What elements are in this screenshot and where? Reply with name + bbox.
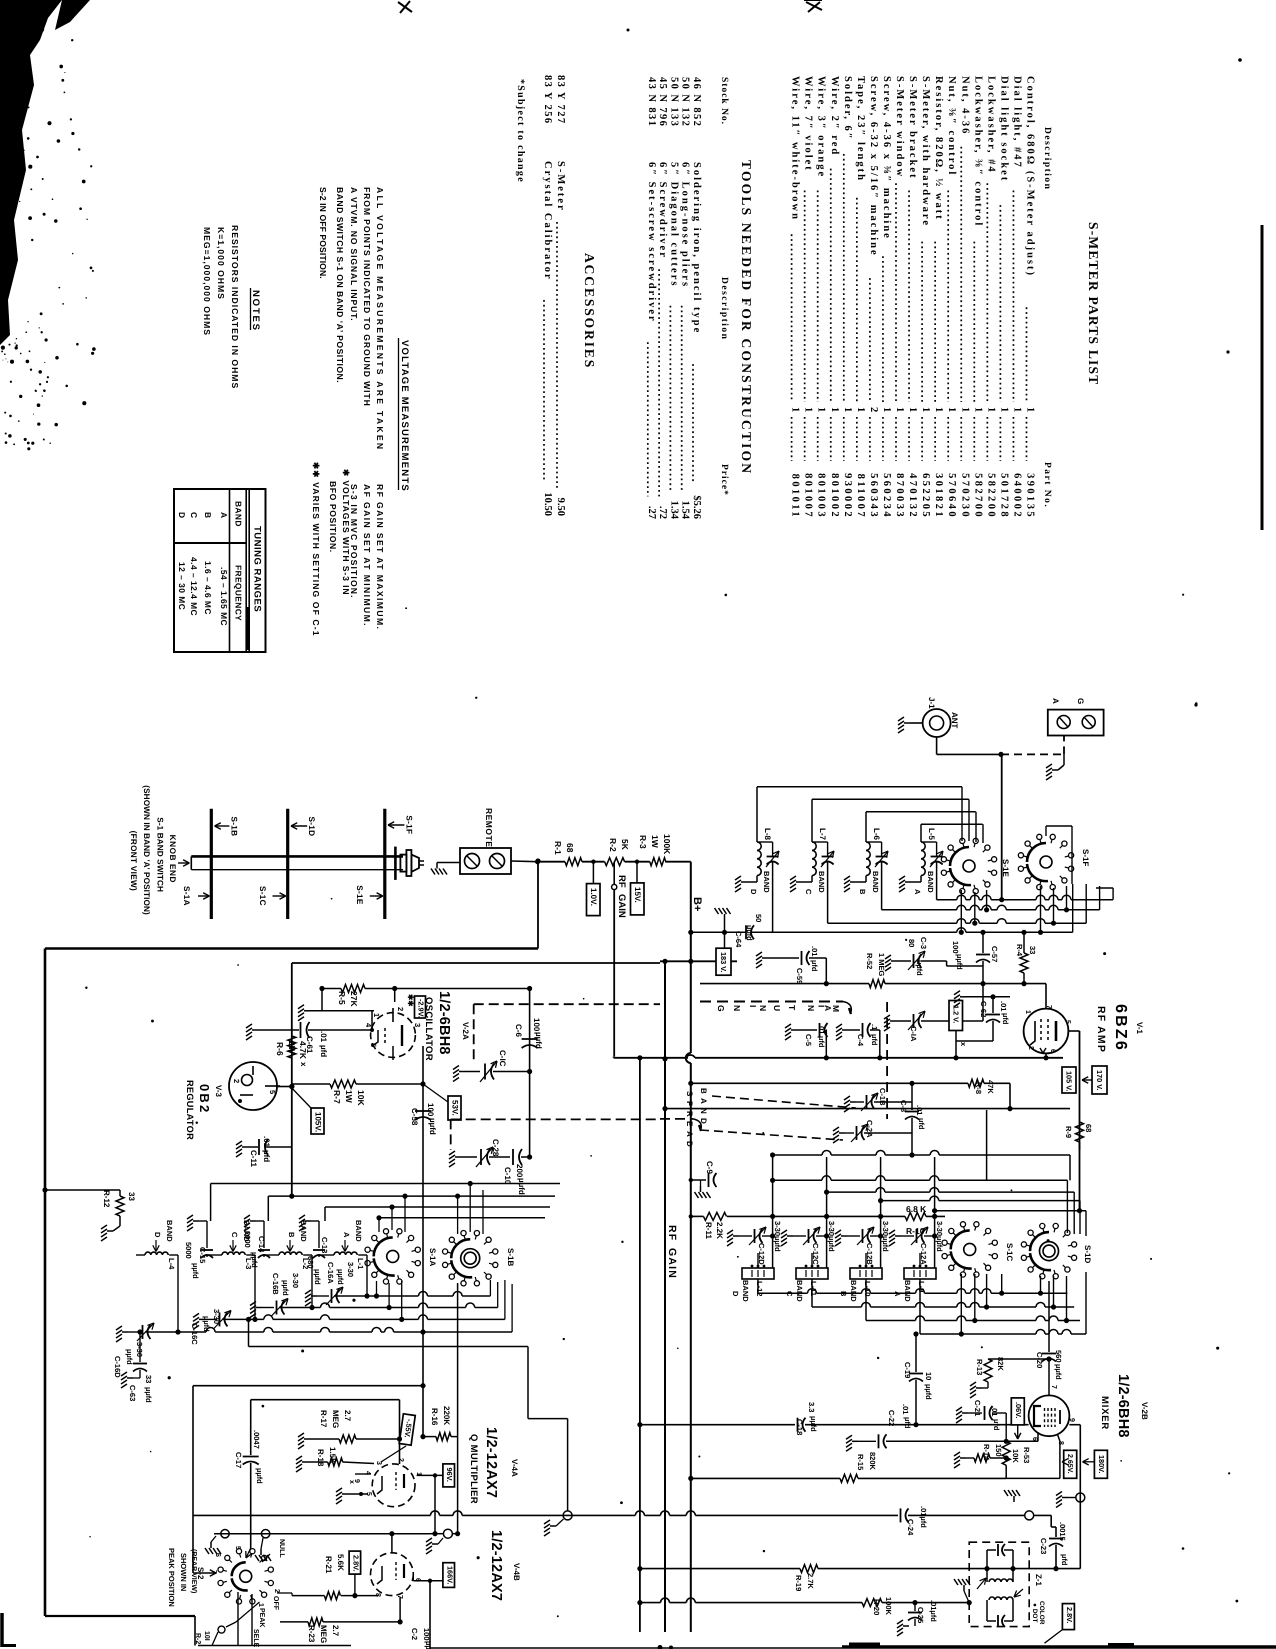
svg-text:NULL: NULL (278, 1539, 285, 1558)
svg-text:1: 1 (855, 407, 866, 412)
svg-text:4.7K: 4.7K (298, 1041, 308, 1060)
svg-text:ANT: ANT (950, 712, 959, 729)
svg-text:C-16C: C-16C (190, 1323, 199, 1345)
svg-text:200: 200 (515, 1164, 524, 1178)
svg-text:.01: .01 (990, 1406, 999, 1416)
svg-text:(FRONT VIEW): (FRONT VIEW) (129, 831, 138, 891)
svg-text:C-22: C-22 (887, 1410, 896, 1426)
svg-text:µfd: µfd (917, 1118, 926, 1130)
svg-text:5K: 5K (620, 839, 630, 851)
svg-text:✱ VOLTAGES WITH S-3 IN: ✱ VOLTAGES WITH S-3 IN (341, 469, 351, 595)
svg-text:3-30µµfd: 3-30µµfd (881, 1221, 890, 1252)
svg-text:10K: 10K (356, 1090, 366, 1106)
svg-text:MEG: MEG (331, 1410, 340, 1428)
svg-text:(REAR VIEW): (REAR VIEW) (190, 1549, 198, 1593)
svg-text:*Subject to change: *Subject to change (515, 79, 526, 183)
svg-text:.01: .01 (262, 1136, 271, 1148)
svg-text:µµfd: µµfd (924, 1384, 933, 1400)
svg-text:✱✱ VARIES WITH SETTING OF C-1: ✱✱ VARIES WITH SETTING OF C-1 (311, 462, 321, 637)
svg-text:V-2B: V-2B (1140, 1402, 1149, 1420)
svg-text:R-11: R-11 (704, 1222, 713, 1239)
svg-text:µµfd: µµfd (517, 1178, 526, 1195)
svg-text:MIXER: MIXER (1099, 1396, 1110, 1430)
svg-text:RF: RF (666, 1225, 678, 1241)
svg-text:C-4: C-4 (856, 1034, 865, 1047)
svg-text:C-13: C-13 (320, 1237, 329, 1253)
svg-text:Nut, ⅜″ control: Nut, ⅜″ control (946, 76, 957, 176)
svg-text:C-23: C-23 (1039, 1538, 1048, 1554)
svg-text:D: D (699, 1118, 708, 1124)
svg-text:3-30µµfd: 3-30µµfd (935, 1221, 944, 1252)
svg-text:Screw, 6-32 x 5/16″ machine: Screw, 6-32 x 5/16″ machine (868, 76, 879, 257)
svg-text:6: 6 (1031, 1437, 1038, 1441)
svg-text:C-59: C-59 (795, 968, 804, 984)
svg-text:Stock No.: Stock No. (719, 77, 729, 125)
svg-text:L-1: L-1 (356, 1258, 365, 1269)
svg-text:µµfd: µµfd (915, 960, 924, 976)
svg-text:1: 1 (881, 407, 892, 412)
svg-text:R-53: R-53 (1022, 1447, 1031, 1463)
svg-text:801011: 801011 (790, 474, 801, 519)
svg-text:27K: 27K (349, 991, 359, 1007)
svg-text:TUNING RANGES: TUNING RANGES (252, 526, 263, 612)
svg-text:6: 6 (1049, 1049, 1056, 1053)
svg-text:1: 1 (959, 407, 970, 412)
svg-text:170 V.: 170 V. (1095, 1070, 1104, 1090)
svg-text:µµfd: µµfd (809, 1416, 818, 1432)
svg-text:C-16A: C-16A (326, 1262, 335, 1284)
svg-text:BAND SWITCH S-1 ON BAND ‘A’ PO: BAND SWITCH S-1 ON BAND ‘A’ POSITION. (335, 187, 345, 383)
svg-text:B: B (858, 889, 867, 895)
svg-text:2W: 2W (287, 1041, 297, 1055)
svg-text:582200: 582200 (985, 473, 996, 519)
svg-text:5: 5 (268, 1090, 277, 1094)
svg-text:10K: 10K (1011, 1449, 1020, 1463)
svg-text:D: D (685, 1141, 694, 1147)
svg-text:A: A (893, 1291, 902, 1297)
svg-text:C-19: C-19 (903, 1362, 912, 1378)
svg-text:180V.: 180V. (1097, 1455, 1106, 1473)
svg-text:82K: 82K (996, 1357, 1005, 1371)
svg-text:83 Y 256: 83 Y 256 (542, 75, 553, 125)
svg-text:S-1F: S-1F (1081, 849, 1090, 866)
svg-text:VOLTAGE MEASUREMENTS: VOLTAGE MEASUREMENTS (399, 340, 410, 492)
svg-text:C-12D: C-12D (757, 1243, 766, 1265)
svg-text:33: 33 (144, 1375, 153, 1383)
svg-text:E: E (685, 1121, 694, 1127)
svg-text:10.50: 10.50 (542, 492, 553, 516)
svg-text:Dial light socket: Dial light socket (998, 76, 1009, 182)
svg-text:S-1C: S-1C (258, 886, 267, 906)
svg-text:1: 1 (933, 407, 944, 412)
svg-text:43 N 831: 43 N 831 (646, 77, 657, 127)
svg-text:µµfd: µµfd (428, 1118, 437, 1135)
svg-text:FROM POINTS INDICATED TO GROUN: FROM POINTS INDICATED TO GROUND WITH (362, 187, 372, 407)
svg-text:Z-1: Z-1 (1034, 1574, 1043, 1587)
svg-text:1.5K: 1.5K (328, 1447, 337, 1464)
svg-text:2.2K: 2.2K (715, 1222, 724, 1239)
svg-text:A: A (699, 1098, 708, 1104)
svg-text:220K: 220K (442, 1406, 451, 1425)
svg-text:.54 – 1.65 MC: .54 – 1.65 MC (219, 567, 229, 626)
svg-text:R-19: R-19 (794, 1575, 803, 1591)
svg-text:BFO POSITION.: BFO POSITION. (328, 481, 338, 553)
svg-text:Wire, 7″ violet: Wire, 7″ violet (803, 76, 814, 172)
svg-text:● DOT: ● DOT (1031, 1603, 1038, 1622)
svg-text:A: A (219, 512, 229, 518)
svg-text:S-1C: S-1C (1005, 1243, 1014, 1261)
svg-text:L-4: L-4 (167, 1258, 176, 1270)
svg-text:.27: .27 (646, 506, 657, 519)
svg-text:OFF: OFF (272, 1596, 279, 1611)
svg-text:1/2-6BH8: 1/2-6BH8 (436, 991, 452, 1055)
svg-text:J-1: J-1 (927, 697, 936, 709)
svg-text:µµfd: µµfd (191, 1263, 200, 1279)
svg-text:R-13: R-13 (975, 1359, 984, 1375)
svg-text:C-11: C-11 (249, 1150, 258, 1167)
svg-text:96V.: 96V. (445, 1468, 454, 1482)
svg-text:C-63: C-63 (128, 1385, 137, 1401)
svg-text:R-7: R-7 (332, 1090, 342, 1104)
svg-text:.01: .01 (915, 1105, 924, 1115)
svg-text:2: 2 (396, 1007, 405, 1011)
svg-text:5000: 5000 (184, 1242, 193, 1259)
svg-text:C-1B: C-1B (878, 1088, 887, 1106)
svg-text:µµfd: µµfd (125, 1349, 134, 1365)
svg-text:80: 80 (907, 939, 916, 947)
svg-text:33: 33 (1028, 946, 1037, 954)
svg-text:R-17: R-17 (319, 1410, 328, 1428)
svg-text:C: C (189, 512, 199, 518)
svg-text:R-3: R-3 (638, 835, 648, 849)
svg-text:.0015: .0015 (1058, 1522, 1067, 1541)
svg-text:COLOR: COLOR (1038, 1601, 1045, 1625)
svg-text:Q MULTIPLIER: Q MULTIPLIER (468, 1434, 479, 1504)
svg-text:TOOLS NEEDED FOR CONSTRUCTION: TOOLS NEEDED FOR CONSTRUCTION (739, 160, 754, 475)
svg-text:640002: 640002 (1011, 473, 1022, 519)
svg-text:801002: 801002 (829, 473, 840, 519)
svg-text:560: 560 (1054, 1350, 1063, 1363)
svg-text:2: 2 (1027, 1046, 1034, 1050)
svg-text:680: 680 (306, 1256, 315, 1269)
svg-text:S-Meter bracket: S-Meter bracket (907, 76, 918, 180)
svg-text:5″ Diagonal cutters: 5″ Diagonal cutters (668, 162, 679, 287)
svg-text:µfd: µfd (319, 1045, 328, 1057)
svg-text:R-1: R-1 (553, 841, 563, 855)
svg-text:83 Y 727: 83 Y 727 (555, 75, 566, 125)
svg-text:6″ Long-nose pliers: 6″ Long-nose pliers (680, 162, 691, 288)
svg-text:N: N (732, 1005, 742, 1011)
svg-text:A: A (685, 1131, 694, 1137)
svg-text:100: 100 (422, 1628, 431, 1641)
svg-text:FREQUENCY: FREQUENCY (234, 565, 244, 621)
svg-text:BAND: BAND (926, 871, 935, 893)
svg-text:50: 50 (754, 914, 763, 922)
svg-text:S-1D: S-1D (307, 817, 316, 837)
svg-text:OSCILLATOR: OSCILLATOR (423, 997, 434, 1061)
svg-text:Nut, 4-36: Nut, 4-36 (959, 76, 970, 135)
svg-text:100K: 100K (662, 834, 672, 855)
svg-text:T: T (787, 1005, 797, 1011)
svg-text:Soldering iron, pencil type: Soldering iron, pencil type (691, 162, 702, 334)
svg-text:S-1F: S-1F (404, 815, 413, 834)
svg-text:2.8V.: 2.8V. (352, 1555, 361, 1571)
svg-text:BAND: BAND (849, 1280, 858, 1302)
svg-text:S-1B: S-1B (229, 817, 238, 837)
svg-text:x: x (299, 1062, 308, 1067)
svg-text:45 N 796: 45 N 796 (657, 77, 668, 127)
svg-text:Wire, 3″ orange: Wire, 3″ orange (816, 76, 827, 178)
svg-text:1: 1 (790, 407, 801, 412)
svg-text:R-14: R-14 (982, 1444, 991, 1461)
svg-text:BAND: BAND (741, 1280, 750, 1302)
svg-text:RESISTORS INDICATED IN OHMS: RESISTORS INDICATED IN OHMS (230, 225, 240, 389)
svg-text:1: 1 (829, 407, 840, 412)
svg-text:R-2: R-2 (608, 838, 618, 852)
svg-text:2: 2 (868, 407, 879, 412)
svg-text:2: 2 (232, 1079, 241, 1083)
svg-text:.01µfd: .01µfd (929, 1600, 938, 1622)
svg-text:Price*: Price* (719, 464, 729, 496)
svg-text:.01: .01 (319, 1031, 328, 1043)
svg-text:2.7: 2.7 (343, 1410, 352, 1422)
svg-text:µµfd: µµfd (281, 1280, 290, 1296)
svg-text:1.0V.: 1.0V. (589, 888, 598, 906)
svg-text:µµfd: µµfd (534, 1032, 543, 1049)
svg-text:D: D (731, 1291, 740, 1297)
svg-text:C-16D: C-16D (113, 1356, 122, 1378)
svg-text:105V.: 105V. (314, 1112, 323, 1132)
svg-text:A: A (913, 889, 922, 895)
svg-text:D: D (177, 512, 187, 518)
svg-text:1.34: 1.34 (668, 501, 679, 520)
svg-text:C-IA: C-IA (909, 1026, 918, 1042)
svg-text:x: x (959, 1042, 968, 1047)
svg-text:2: 2 (397, 1458, 404, 1462)
svg-text:801007: 801007 (803, 473, 814, 519)
svg-text:R: R (685, 1111, 694, 1117)
svg-text:1: 1 (372, 1013, 381, 1017)
svg-text:2.7: 2.7 (331, 1625, 340, 1637)
svg-text:1.54: 1.54 (680, 501, 691, 520)
svg-text:R-20: R-20 (872, 1599, 881, 1615)
svg-text:R-21: R-21 (324, 1556, 333, 1574)
svg-text:5: 5 (369, 1043, 378, 1047)
svg-text:1: 1 (1011, 407, 1022, 412)
svg-text:x: x (348, 1480, 355, 1484)
svg-text:1/2-12AX7: 1/2-12AX7 (483, 1427, 499, 1498)
svg-text:Wire, 11″ white-brown: Wire, 11″ white-brown (790, 76, 801, 221)
svg-text:1: 1 (1025, 407, 1036, 412)
svg-text:A: A (1051, 698, 1060, 704)
svg-text:C-24: C-24 (906, 1519, 915, 1536)
svg-text:R-8: R-8 (974, 1082, 983, 1094)
svg-text:B: B (203, 512, 213, 518)
svg-text:3: 3 (413, 1023, 422, 1027)
svg-text:820K: 820K (868, 1452, 877, 1471)
svg-text:B: B (839, 1291, 848, 1297)
svg-text:R-16: R-16 (430, 1408, 439, 1426)
svg-text:S-Meter window: S-Meter window (894, 76, 905, 178)
svg-text:µµfd: µµfd (955, 954, 964, 970)
svg-text:.1: .1 (870, 1024, 879, 1030)
svg-text:R-18: R-18 (316, 1449, 325, 1467)
svg-text:µfd: µfd (262, 1150, 271, 1162)
svg-text:PEAK: PEAK (258, 1608, 265, 1627)
svg-text:C-62: C-62 (979, 1001, 988, 1017)
svg-text:R-23: R-23 (307, 1625, 316, 1643)
svg-text:1.2 V.: 1.2 V. (952, 1005, 961, 1023)
svg-text:µµfd: µµfd (250, 1252, 259, 1268)
svg-text:S-1A: S-1A (428, 1248, 437, 1266)
svg-text:1: 1 (1024, 1010, 1031, 1014)
svg-text:L-8: L-8 (763, 828, 772, 841)
svg-text:BAND: BAND (817, 871, 826, 893)
svg-text:S-METER PARTS LIST: S-METER PARTS LIST (1086, 222, 1101, 385)
svg-text:B+: B+ (691, 897, 703, 911)
svg-text:1: 1 (946, 407, 957, 412)
svg-text:S-1D: S-1D (1083, 1245, 1092, 1263)
svg-text:µµfd: µµfd (255, 1468, 264, 1484)
svg-text:15V.: 15V. (633, 887, 642, 903)
svg-text:3.3: 3.3 (807, 1402, 816, 1412)
svg-text:N: N (758, 1005, 768, 1011)
svg-text:C-8: C-8 (899, 1100, 908, 1112)
svg-text:BAND: BAND (903, 1280, 912, 1302)
svg-text:MEG: MEG (319, 1625, 328, 1643)
svg-text:BAND: BAND (299, 1220, 308, 1242)
svg-text:100: 100 (532, 1018, 541, 1032)
svg-text:µµfd: µµfd (745, 925, 754, 941)
svg-text:1: 1 (803, 407, 814, 412)
svg-text:S-Meter: S-Meter (555, 161, 566, 212)
svg-text:Description: Description (719, 277, 729, 340)
svg-text:652205: 652205 (920, 473, 931, 519)
svg-text:501728: 501728 (998, 473, 1009, 519)
svg-text:R-2: R-2 (194, 1633, 201, 1644)
svg-text:REMOTE: REMOTE (484, 808, 494, 847)
svg-text:3-30: 3-30 (212, 1309, 221, 1324)
svg-text:C-12C: C-12C (811, 1243, 820, 1265)
svg-text:S: S (685, 1091, 694, 1097)
svg-text:301821: 301821 (933, 473, 944, 519)
svg-text:BAND: BAND (762, 871, 771, 893)
svg-text:C-IC: C-IC (498, 1050, 507, 1067)
svg-text:µfd: µfd (870, 1034, 879, 1046)
svg-text:ALL VOLTAGE MEASUREMENTS ARE T: ALL VOLTAGE MEASUREMENTS ARE TAKEN (375, 187, 385, 451)
svg-text:C-12B: C-12B (865, 1243, 874, 1265)
svg-text:µµfd: µµfd (1054, 1364, 1063, 1380)
svg-text:µfd: µfd (1001, 1013, 1010, 1025)
svg-text:560234: 560234 (881, 473, 892, 519)
svg-text:V-4A: V-4A (510, 1459, 519, 1477)
svg-text:C-6: C-6 (514, 1024, 523, 1037)
svg-text:Lockwasher, #4: Lockwasher, #4 (985, 76, 996, 174)
svg-text:2.8V.: 2.8V. (1065, 1607, 1074, 1623)
svg-text:RF AMP: RF AMP (1095, 1006, 1107, 1053)
svg-text:150: 150 (994, 1444, 1003, 1457)
svg-text:$5.26: $5.26 (691, 495, 702, 519)
svg-text:470132: 470132 (907, 473, 918, 519)
svg-text:1/2-12AX7: 1/2-12AX7 (488, 1530, 504, 1601)
svg-text:BAND: BAND (354, 1220, 363, 1242)
svg-text:S-1A: S-1A (182, 886, 191, 906)
svg-text:Dial light, #47: Dial light, #47 (1011, 76, 1022, 169)
svg-text:6: 6 (214, 1553, 221, 1557)
svg-text:MEG=1,000,000 OHMS: MEG=1,000,000 OHMS (202, 227, 212, 336)
svg-text:V-4B: V-4B (512, 1563, 521, 1581)
svg-text:S-Meter, with hardware: S-Meter, with hardware (920, 76, 931, 227)
svg-text:Wire, 2″ red: Wire, 2″ red (829, 76, 840, 156)
svg-text:✱✱: ✱✱ (406, 994, 415, 1007)
svg-text:5.6K: 5.6K (336, 1554, 345, 1571)
svg-text:G: G (1076, 698, 1085, 704)
svg-text:C-14: C-14 (257, 1236, 266, 1253)
svg-text:C-16B: C-16B (271, 1273, 280, 1295)
svg-text:A VTVM. NO SIGNAL INPUT.: A VTVM. NO SIGNAL INPUT. (349, 187, 359, 322)
svg-text:.01: .01 (810, 946, 819, 956)
svg-text:S-1E: S-1E (355, 885, 364, 905)
svg-text:KNOB END: KNOB END (168, 835, 177, 883)
svg-text:C-25: C-25 (916, 1607, 925, 1623)
svg-text:SHOWN IN: SHOWN IN (179, 1553, 188, 1591)
svg-text:6″ Set-screw screwdriver: 6″ Set-screw screwdriver (646, 162, 657, 323)
svg-text:L-6: L-6 (872, 828, 881, 841)
svg-text:53V.: 53V. (451, 1100, 460, 1116)
svg-text:1: 1 (985, 407, 996, 412)
svg-text:.72: .72 (657, 506, 668, 519)
svg-text:N: N (806, 1005, 816, 1011)
svg-text:3-30µµfd: 3-30µµfd (827, 1221, 836, 1252)
svg-text:C: C (785, 1291, 794, 1297)
svg-text:100: 100 (426, 1103, 435, 1117)
svg-text:R-9: R-9 (1064, 1126, 1073, 1138)
svg-text:9: 9 (1068, 1418, 1075, 1422)
svg-text:GAIN: GAIN (616, 894, 627, 918)
svg-text:.01: .01 (817, 1024, 826, 1034)
svg-text:C-17: C-17 (234, 1452, 243, 1468)
svg-text:1: 1 (998, 407, 1009, 412)
svg-text:183 V.: 183 V. (719, 952, 728, 972)
svg-text:Tape, 23″ length: Tape, 23″ length (855, 76, 866, 182)
svg-text:C-21: C-21 (973, 1400, 982, 1416)
svg-text:R-6: R-6 (275, 1042, 285, 1056)
svg-text:100K: 100K (884, 1597, 893, 1616)
svg-text:V-1: V-1 (1135, 1022, 1144, 1035)
svg-text:R-15: R-15 (856, 1454, 865, 1470)
svg-text:5: 5 (234, 1546, 241, 1550)
svg-text:(SHOWN IN BAND 'A' POSITION): (SHOWN IN BAND 'A' POSITION) (142, 785, 151, 915)
svg-text:S-1B: S-1B (506, 1248, 515, 1266)
svg-text:390135: 390135 (1025, 473, 1036, 519)
svg-text:6″ Screwdriver: 6″ Screwdriver (657, 162, 668, 259)
svg-text:C-58: C-58 (410, 1108, 419, 1126)
svg-text:V-3: V-3 (214, 1085, 223, 1098)
svg-text:C-15: C-15 (198, 1247, 207, 1263)
svg-text:D: D (153, 1232, 162, 1238)
svg-text:46 N 852: 46 N 852 (691, 77, 702, 127)
svg-text:C-10: C-10 (503, 1167, 512, 1185)
svg-text:47K: 47K (986, 1080, 995, 1094)
svg-text:BAND: BAND (871, 871, 880, 893)
svg-text:570640: 570640 (946, 473, 957, 519)
svg-text:P: P (685, 1101, 694, 1107)
svg-text:930002: 930002 (842, 473, 853, 519)
svg-text:K=1,000 OHMS: K=1,000 OHMS (216, 227, 226, 300)
svg-text:µµfd: µµfd (144, 1387, 153, 1403)
svg-text:C-5: C-5 (804, 1034, 813, 1046)
svg-text:C-28: C-28 (491, 1139, 500, 1157)
